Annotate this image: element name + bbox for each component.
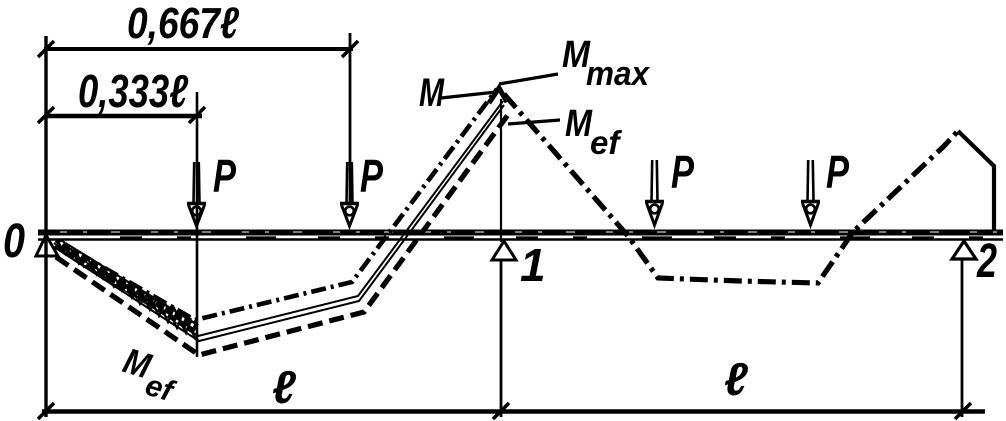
extension line x=501 above axis to peak xyxy=(500,99,502,242)
band white specks 2 xyxy=(58,247,196,333)
hatch scribble on first descending segment xyxy=(58,242,196,340)
svg-text:ℓ: ℓ xyxy=(724,353,748,405)
moment curve left span: bottom dashed line Mef xyxy=(56,112,510,355)
peak solid cluster xyxy=(489,88,507,103)
label Mef bottom left xyxy=(115,340,186,409)
svg-text:0,333ℓ: 0,333ℓ xyxy=(78,65,188,117)
leader line Mef xyxy=(508,120,560,124)
svg-text:P: P xyxy=(826,146,849,198)
load arrow P4 xyxy=(801,160,820,225)
beam axis gap bridging specks xyxy=(120,236,1003,238)
hatch scribble second pass xyxy=(61,249,191,333)
moment curve left span: thin solid line A xyxy=(54,101,503,336)
svg-text:P: P xyxy=(360,150,383,202)
svg-text:P: P xyxy=(213,150,236,202)
bottom dimension line xyxy=(42,409,985,414)
svg-text:P: P xyxy=(671,146,694,198)
svg-text:ef: ef xyxy=(590,124,622,161)
dimension line 0.667l xyxy=(44,47,353,51)
beam axis thick line xyxy=(38,230,1003,236)
support 1 triangle xyxy=(492,241,516,260)
svg-text:0: 0 xyxy=(3,215,25,268)
svg-text:2: 2 xyxy=(976,235,997,288)
svg-text:0,667ℓ: 0,667ℓ xyxy=(127,0,239,48)
moment curve left span: thin solid line B xyxy=(54,105,504,341)
leader line Mmax xyxy=(499,74,558,84)
dim tick slash bottom right xyxy=(955,403,971,419)
support 2 triangle xyxy=(952,241,976,259)
leader line M xyxy=(441,92,496,98)
right end descent solid xyxy=(958,131,994,231)
moment curve right span: dash-dot descending and rising xyxy=(504,94,958,283)
extension line x=501 below support 1 xyxy=(500,259,503,417)
load arrow P2 xyxy=(340,162,359,226)
beam axis thin lower line xyxy=(38,238,1003,240)
dim tick slash top-left 0.667 xyxy=(38,41,54,57)
moment curve left span: top dash-dot line M xyxy=(56,89,497,320)
extension line x=962 below support 2 xyxy=(961,260,964,417)
extension line x=350 xyxy=(349,33,352,205)
svg-text:max: max xyxy=(586,55,651,93)
svg-text:1: 1 xyxy=(520,239,546,291)
dim tick slash top-right 0.667 xyxy=(342,41,358,57)
support 0 triangle xyxy=(36,235,58,256)
dimension line 0.333l xyxy=(44,114,202,119)
extension line x=197 xyxy=(196,92,199,357)
beam axis texture overlay xyxy=(60,231,1003,233)
svg-text:ℓ: ℓ xyxy=(272,361,296,413)
svg-text:M: M xyxy=(565,103,593,145)
dim tick slash bottom left xyxy=(38,403,54,419)
dim tick slash bottom middle xyxy=(493,403,509,419)
dim tick slash left 0.333 xyxy=(38,107,54,123)
scribble band solid fill xyxy=(57,243,196,329)
load arrow P3 xyxy=(645,160,664,225)
dim tick slash right 0.333 xyxy=(189,107,205,123)
load arrow P1 shaft xyxy=(187,162,206,226)
extension line left x=46 xyxy=(44,36,47,417)
band white specks 1 xyxy=(60,243,194,326)
svg-text:M: M xyxy=(419,71,445,115)
